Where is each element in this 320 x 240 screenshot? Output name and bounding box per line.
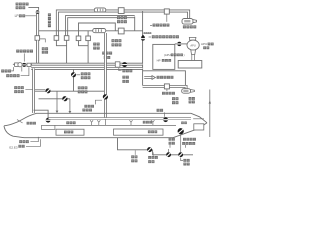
recirc label pointer — [23, 53, 25, 61]
relief valve CV10 — [177, 151, 184, 158]
check valve CVA (ram inlet) — [36, 10, 40, 14]
engine 1 nozzle — [191, 90, 195, 93]
fan cluster down stub — [21, 67, 23, 72]
CV4 outlet arrow — [69, 99, 71, 112]
branch y70.8 — [143, 71, 186, 86]
label: fan — [157, 109, 160, 112]
EE box — [42, 125, 55, 129]
APU to box lines — [192, 54, 195, 60]
APU nozzle — [191, 50, 196, 54]
lavatory fan dot — [163, 117, 168, 122]
valve V1 (flow ctl 1) — [118, 8, 124, 14]
label: flow control valve — [117, 16, 120, 19]
pipe L2 drop — [134, 17, 136, 31]
valve S1 — [54, 36, 59, 41]
label: engine 2 — [183, 25, 186, 28]
recirc fan line — [13, 63, 32, 65]
label: trim air valve mid — [78, 86, 81, 89]
pipe S4 riser — [87, 31, 89, 36]
box B2 (muffler box) — [178, 61, 202, 69]
trim valve CV4 — [61, 95, 68, 102]
label: bleed valve (below S6) — [162, 92, 165, 95]
label: fwd cabin — [66, 121, 69, 124]
trim valve CV6 (cockpit) — [46, 118, 51, 123]
filter box L — [15, 63, 19, 67]
label: ram air (2 lines) — [16, 3, 19, 6]
rudder line — [209, 90, 211, 138]
valve S4 — [86, 36, 91, 41]
label: relief valve b1 — [131, 155, 134, 158]
aft cargo box — [114, 129, 164, 135]
right pipe pair — [104, 33, 107, 118]
valve V5 drop — [166, 14, 168, 22]
label: exhaust fan left — [172, 97, 175, 100]
CV9 link — [168, 149, 170, 152]
fuselage belly — [4, 126, 173, 138]
check valve CVC (APU) — [177, 42, 181, 46]
outflow valve — [176, 127, 185, 136]
engine 2 nozzle — [193, 20, 197, 23]
vertical label: check valve — [48, 13, 51, 16]
bottom drop line — [118, 138, 194, 155]
valve S2 — [64, 36, 69, 41]
cabin flow arrows — [90, 120, 93, 125]
pipe down x142.6 — [142, 11, 144, 86]
label: electronics bay — [19, 140, 22, 143]
trim valve CV5 — [102, 93, 109, 100]
svg-text:APU: APU — [190, 43, 195, 47]
engine 2 body — [182, 19, 193, 25]
box B1 (APU bleed/HP) — [153, 44, 175, 69]
fan dark R — [122, 62, 127, 67]
label: check valve R — [122, 76, 125, 79]
label: recirculation fan R — [102, 52, 105, 55]
fwd cargo box — [56, 129, 84, 135]
manifold pair 2 — [31, 67, 142, 70]
valve S6 — [164, 84, 169, 89]
branch y110.2 — [34, 110, 49, 118]
pipe L2 — [67, 17, 135, 36]
muffler M2 — [93, 29, 106, 33]
CV0 label dash — [76, 74, 80, 76]
label: flow control valve 2 — [112, 39, 115, 42]
APU body — [187, 40, 199, 50]
label: aft cabin — [143, 121, 146, 124]
label: neg relief valve — [148, 156, 151, 159]
S0 side tick — [40, 39, 46, 43]
pipe L1 (engine2 bleed main) — [57, 11, 188, 36]
label: to air conditioning — [153, 24, 156, 27]
check box L — [27, 63, 31, 66]
fuselage roof — [4, 113, 207, 126]
trim valve CV3 — [44, 87, 51, 94]
tail box — [194, 124, 204, 130]
label: trim air valve CV0 — [81, 72, 84, 75]
svg-text:): ) — [184, 53, 185, 57]
label: check valve (below S0) — [42, 47, 45, 50]
relief valve CV9 — [165, 151, 172, 158]
outflow valve blob — [181, 122, 184, 125]
pipe engine1 — [143, 86, 187, 88]
APU inlet — [189, 37, 196, 40]
pipe L3 — [79, 23, 116, 36]
label: engine 1 — [189, 97, 192, 100]
label: cockpit — [27, 122, 30, 125]
svg-text:APU: APU — [201, 42, 207, 46]
svg-text:LP: LP — [15, 14, 19, 18]
fan circle L — [18, 63, 22, 67]
manifold pair 1 — [31, 63, 142, 66]
valve V5 — [164, 9, 169, 14]
label: trim air valve 1 — [14, 86, 17, 89]
valve V2 (flow ctl 2) — [118, 28, 124, 34]
label: check valve (right of S4) — [93, 43, 96, 46]
left down pipe pair — [32, 68, 35, 113]
S1-S2 merge pipe — [56, 40, 66, 64]
micro label: check valve — [144, 32, 146, 34]
drop x57 with arrow — [56, 91, 58, 111]
trim line B — [39, 98, 70, 100]
pipe P0 upper (ram duct down) — [36, 14, 39, 36]
svg-text:HP: HP — [157, 59, 161, 63]
check valve CVB (triangle+disc) — [141, 35, 145, 38]
cabin divider at CV5 drop — [104, 119, 106, 125]
CV10 tick — [181, 158, 183, 161]
trim valve CV0 — [70, 71, 77, 78]
valve S3 — [76, 36, 81, 41]
trim air line — [35, 90, 106, 92]
fan dark L — [22, 63, 26, 67]
pipe L30 (lower bus) — [39, 30, 143, 32]
svg-text:(APU: (APU — [164, 53, 171, 57]
label: ejector from engine — [157, 76, 160, 79]
label: to engine bleed valve — [152, 35, 155, 38]
trim valve CV0 line — [73, 70, 75, 92]
cabin ceiling double line — [49, 117, 192, 119]
windshield — [17, 120, 23, 123]
label: recirculation fan L — [16, 50, 19, 53]
valve S0 — [35, 36, 40, 41]
S6 label tick — [166, 89, 168, 91]
pipe P0 lower — [36, 40, 39, 64]
svg-text:E2.E3: E2.E3 — [9, 145, 18, 149]
engine 1 body — [182, 89, 191, 94]
label: check valve b — [183, 159, 186, 162]
APU feed line — [175, 43, 188, 45]
label: trim air valve 2 — [84, 105, 87, 108]
LP label dash — [25, 15, 36, 17]
label: check valve L — [6, 74, 9, 77]
relief valve CV7 — [146, 146, 153, 153]
label: continuous outflow — [183, 138, 186, 141]
arrow from engine bleed — [144, 76, 155, 80]
label: outflow valve — [169, 138, 172, 141]
S3-S4 merge pipe — [79, 41, 89, 64]
fuselage tail cone — [173, 123, 207, 138]
label: filter R — [122, 69, 125, 72]
label: filter L — [1, 70, 4, 73]
filter box R — [115, 62, 120, 67]
outflow valve down link — [180, 135, 182, 153]
ram air inlet label line — [28, 7, 38, 9]
muffler M1 — [94, 8, 106, 12]
cabin floor line — [46, 124, 176, 126]
